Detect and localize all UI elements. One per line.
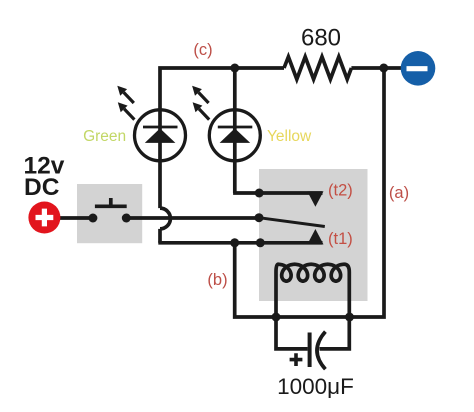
svg-text:(c): (c) <box>193 41 212 59</box>
svg-text:Yellow: Yellow <box>267 128 312 145</box>
svg-text:(a): (a) <box>389 184 409 202</box>
svg-text:680: 680 <box>301 25 341 52</box>
svg-text:1000μF: 1000μF <box>277 374 354 399</box>
svg-text:(t2): (t2) <box>328 181 353 199</box>
svg-text:DC: DC <box>24 174 60 201</box>
svg-text:(b): (b) <box>207 271 227 289</box>
svg-text:(t1): (t1) <box>328 230 353 248</box>
svg-text:Green: Green <box>83 128 126 145</box>
